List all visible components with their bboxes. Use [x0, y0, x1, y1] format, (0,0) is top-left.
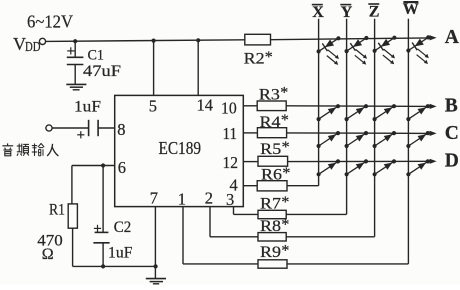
svg-text:6: 6 [118, 158, 126, 177]
svg-text:*: * [282, 165, 290, 182]
label EC189 [159, 138, 202, 158]
junction pin14 tap [196, 38, 200, 42]
svg-text:R5: R5 [260, 141, 281, 158]
junction C2 ground [101, 264, 105, 268]
wire coupling cap to pin 8 [98, 127, 115, 129]
label D [445, 150, 459, 171]
label R3* [259, 85, 288, 104]
label 1uF input [74, 99, 101, 116]
wire row A [271, 38, 431, 40]
svg-text:1uF: 1uF [108, 245, 133, 262]
pin 14 [197, 40, 214, 114]
svg-text:*: * [281, 112, 289, 129]
svg-text:B: B [445, 96, 458, 117]
svg-text:10: 10 [221, 98, 237, 117]
resistor R3 [257, 101, 286, 111]
junction pin7 ground [154, 264, 158, 268]
wire pin 6 node [72, 165, 115, 167]
wire R9 to column W [287, 263, 408, 265]
svg-text:X: X [312, 4, 324, 21]
wire R8 to column Z [286, 236, 374, 238]
pin 5 [149, 41, 157, 116]
wire row C [287, 132, 431, 135]
column Z wire [374, 19, 376, 237]
label C2 1uF [108, 245, 133, 262]
svg-text:*: * [281, 194, 289, 211]
net label Y-bar [340, 4, 353, 21]
junction C2 tap [101, 163, 105, 167]
svg-text:47uF: 47uF [83, 63, 121, 80]
diode B-Z [373, 104, 397, 121]
label R7* [260, 194, 289, 213]
LED row A column Y [345, 36, 369, 65]
capacitor C2 [93, 166, 109, 267]
svg-text:1: 1 [178, 189, 186, 208]
svg-text:C: C [445, 123, 459, 144]
wire input to coupling cap [52, 127, 88, 129]
svg-text:5: 5 [149, 96, 157, 115]
diode D-X [317, 159, 341, 176]
resistor R5 [258, 156, 288, 166]
label R4* [260, 112, 289, 131]
arrow B [430, 104, 437, 109]
resistor R2 [245, 34, 271, 45]
diode B-W [406, 104, 430, 121]
net label Z-bar [368, 4, 379, 21]
svg-text:1uF: 1uF [74, 99, 101, 116]
label 470 ohm [37, 232, 63, 262]
diode C-Y [345, 131, 369, 148]
svg-text:A: A [445, 27, 459, 48]
svg-text:R6: R6 [261, 167, 282, 184]
arrow C [430, 131, 437, 136]
wire row D [288, 160, 431, 162]
net label X-bar [312, 4, 325, 21]
resistor R4 [257, 128, 286, 138]
svg-text:*: * [281, 243, 289, 260]
resistor R8 [258, 233, 286, 241]
diode C-W [406, 131, 430, 148]
diode C-Z [373, 131, 397, 148]
pin 3 [226, 190, 258, 215]
capacitor C1 [67, 41, 84, 84]
net label 6~12V supply [27, 12, 73, 32]
svg-text:6~12V: 6~12V [27, 12, 73, 32]
junction C1 tap [73, 39, 77, 43]
label C [445, 123, 459, 144]
svg-text:R8: R8 [260, 218, 281, 235]
resistor R7 [258, 210, 286, 218]
svg-text:EC189: EC189 [159, 138, 202, 158]
column W wire [407, 19, 409, 264]
LED row A column W [406, 35, 430, 64]
svg-text:Ω: Ω [42, 246, 54, 263]
label A [445, 27, 459, 48]
label R6* [261, 165, 290, 184]
wire VDD rail [46, 40, 245, 42]
svg-text:11: 11 [223, 124, 238, 143]
ground C1 [66, 84, 86, 89]
svg-text:7: 7 [150, 189, 158, 208]
svg-text:R3: R3 [259, 86, 280, 103]
svg-text:2: 2 [205, 188, 213, 207]
diode C-X [317, 131, 341, 148]
pin 6 number [118, 158, 126, 177]
ground main [146, 279, 166, 284]
svg-text:14: 14 [197, 95, 214, 114]
label C2 [114, 219, 132, 236]
arrow A [430, 35, 437, 40]
label R9* [260, 243, 289, 262]
resistor R1 [68, 166, 77, 267]
wire ground rail [73, 265, 156, 267]
svg-text:C1: C1 [88, 48, 105, 64]
svg-text:*: * [280, 85, 288, 102]
svg-text:R7: R7 [260, 196, 281, 213]
column Y wire [346, 19, 348, 215]
diode D-W [406, 159, 430, 176]
svg-text:*: * [282, 139, 290, 156]
pin 11 [223, 124, 258, 143]
LED row A column Z [373, 36, 397, 65]
pin 4 [230, 175, 258, 194]
LED row A column X [317, 36, 341, 65]
svg-text:DD: DD [25, 40, 41, 55]
resistor R9 [258, 260, 287, 268]
IC U1 EC189 body [115, 95, 244, 206]
label 音频输入 (audio input) [2, 143, 58, 156]
svg-text:*: * [281, 216, 289, 233]
svg-text:*: * [265, 49, 273, 66]
label 47uF [83, 63, 121, 80]
terminal VDD [39, 38, 45, 44]
wire R6 to column X [287, 185, 319, 187]
wire row B [286, 105, 430, 108]
pin 1 [178, 189, 258, 264]
svg-text:3: 3 [226, 190, 234, 209]
pin 7 [150, 189, 158, 279]
pin 2 [205, 188, 258, 237]
resistor R6 [257, 181, 287, 191]
junction pin5 tap [152, 39, 156, 43]
label C1 [88, 48, 105, 64]
net label VDD [13, 34, 41, 55]
label R1 [49, 202, 65, 219]
column X wire [318, 19, 320, 186]
svg-text:8: 8 [117, 120, 125, 139]
wire R7 to column Y [286, 213, 346, 215]
arrow D [430, 159, 437, 164]
svg-text:R4: R4 [260, 114, 281, 131]
capacitor 1uF input coupling [77, 120, 98, 139]
terminal audio input [46, 125, 52, 131]
label R5* [260, 139, 289, 158]
label R2* [244, 49, 273, 68]
svg-text:R1: R1 [49, 202, 65, 219]
diode B-X [317, 104, 341, 121]
svg-text:W: W [403, 1, 419, 18]
pin 8 [117, 120, 125, 139]
svg-text:Z: Z [369, 4, 380, 21]
svg-text:Y: Y [341, 4, 353, 21]
diode B-Y [345, 104, 369, 121]
svg-text:C2: C2 [114, 219, 132, 236]
svg-text:R2: R2 [244, 51, 265, 68]
label R8* [260, 216, 289, 235]
diode D-Y [345, 159, 369, 176]
label B [445, 96, 458, 117]
diode D-Z [373, 159, 397, 176]
svg-text:12: 12 [223, 153, 239, 172]
svg-text:R9: R9 [260, 244, 281, 261]
net label W-bar [403, 1, 419, 18]
pin 12 [223, 153, 259, 172]
pin 10 [221, 98, 257, 117]
svg-text:D: D [445, 150, 459, 171]
